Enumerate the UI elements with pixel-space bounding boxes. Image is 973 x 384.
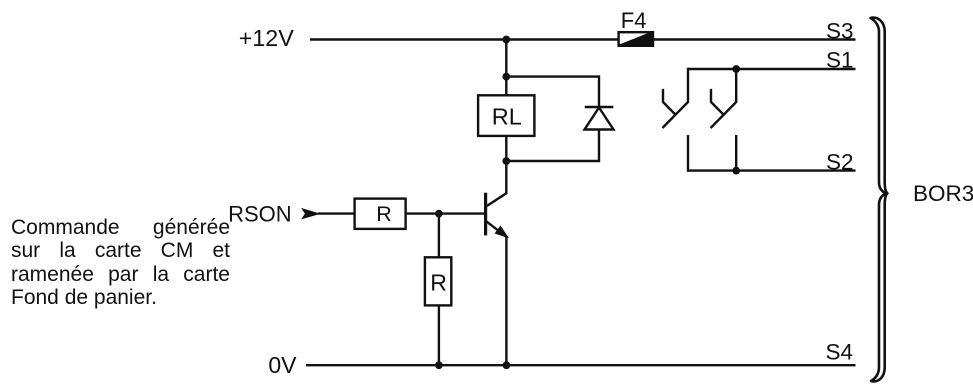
svg-text:S4: S4 <box>825 340 853 365</box>
svg-text:RL: RL <box>492 104 522 130</box>
svg-text:0V: 0V <box>268 352 297 378</box>
svg-text:RSON: RSON <box>228 201 292 226</box>
svg-text:S1: S1 <box>826 48 854 73</box>
svg-text:S3: S3 <box>826 19 854 44</box>
svg-text:F4: F4 <box>621 8 647 33</box>
svg-text:R: R <box>430 270 447 296</box>
svg-text:R: R <box>376 202 392 226</box>
svg-text:S2: S2 <box>826 150 854 175</box>
svg-text:+12V: +12V <box>239 25 295 51</box>
svg-text:BOR3: BOR3 <box>913 181 973 206</box>
